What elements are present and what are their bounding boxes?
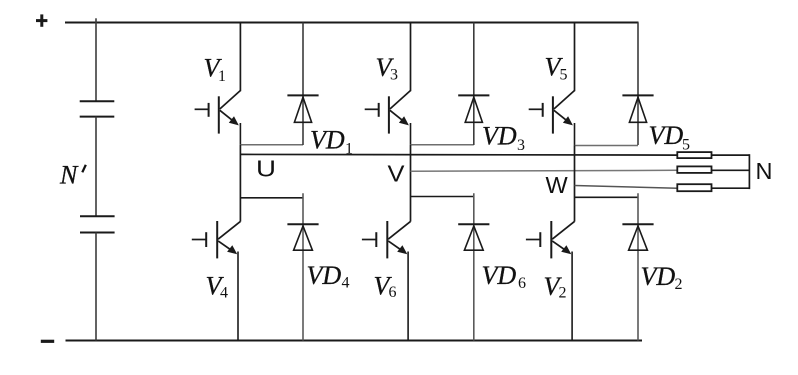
- wire: bus to V1 collector: [239, 23, 241, 92]
- svg-text:6: 6: [389, 284, 397, 301]
- wire: phase W line: [575, 186, 678, 189]
- transistor V2: [526, 221, 575, 258]
- transistor V1: [195, 91, 241, 134]
- resistor R-V (phase V load): [677, 166, 711, 173]
- diode VD1: [287, 23, 318, 146]
- svg-text:5: 5: [560, 67, 568, 84]
- wire: V1 emitter to phase node: [239, 123, 241, 145]
- wire: R-V to node N: [712, 169, 750, 171]
- wire: leg3 bottom junction to VD2: [575, 196, 639, 198]
- wire: leg1 bottom junction to VD4: [240, 197, 303, 199]
- wire: positive DC bus (top rail): [65, 22, 639, 24]
- svg-text:4: 4: [220, 285, 228, 302]
- svg-text:5: 5: [682, 136, 690, 153]
- wire: phase U line: [240, 153, 677, 156]
- transistor V6: [362, 221, 411, 258]
- wire: C2 to negative bus: [95, 233, 97, 341]
- wire: V6 emitter to negative bus: [407, 252, 409, 341]
- capacitor C2 (lower DC-link): [80, 216, 115, 232]
- svg-text:W: W: [546, 172, 569, 198]
- svg-text:VD: VD: [310, 125, 345, 154]
- transistor V4: [192, 221, 241, 258]
- - terminal: [41, 340, 54, 343]
- svg-text:3: 3: [390, 67, 398, 84]
- svg-text:VD: VD: [641, 262, 676, 291]
- transistor V5: [529, 91, 575, 134]
- wire: phase V line: [411, 169, 678, 172]
- wire: leg2 midpoint vertical: [410, 145, 412, 222]
- capacitor C1 (upper DC-link): [80, 101, 115, 116]
- wire: V4 emitter to negative bus: [237, 252, 239, 341]
- resistor R-U (phase U load): [677, 152, 711, 158]
- svg-text:U: U: [256, 155, 276, 181]
- wire: bus to V5 collector: [574, 23, 576, 92]
- wire: bus to capacitor C1: [95, 18, 97, 101]
- wire: leg1 midpoint vertical: [239, 145, 241, 222]
- wire: leg3 midpoint vertical: [574, 146, 576, 222]
- transistor V3: [365, 91, 411, 134]
- wire: emitter-diode junction (leg1 top): [240, 144, 303, 146]
- diode VD4: [287, 193, 318, 340]
- wire: leg2 bottom junction to VD6: [411, 196, 474, 198]
- svg-text:VD: VD: [482, 122, 517, 151]
- wire: negative DC bus (bottom rail): [66, 340, 643, 342]
- svg-text:VD: VD: [649, 121, 684, 150]
- svg-text:4: 4: [342, 274, 350, 291]
- label N': [59, 161, 86, 190]
- wire: V5 emitter to phase node: [574, 123, 576, 146]
- + terminal: [36, 14, 47, 26]
- resistor R-W (phase W load): [677, 184, 711, 191]
- wire: R-U to node N: [712, 154, 750, 156]
- svg-text:1: 1: [218, 68, 226, 85]
- wire: emitter-diode junction (leg3 top): [575, 145, 639, 147]
- svg-text:2: 2: [675, 276, 683, 293]
- diode VD3: [458, 23, 489, 146]
- wire: V3 emitter to phase node: [410, 123, 412, 145]
- svg-text:VD: VD: [482, 261, 517, 290]
- svg-text:6: 6: [518, 275, 526, 292]
- wire: neutral bus (node N): [748, 154, 750, 189]
- diode VD2: [622, 193, 653, 340]
- svg-text:2: 2: [559, 285, 567, 302]
- svg-text:N: N: [59, 161, 79, 190]
- svg-text:N: N: [756, 158, 773, 184]
- svg-text:VD: VD: [307, 261, 342, 290]
- wire: bus to V3 collector: [410, 23, 412, 92]
- wire: R-W to node N: [712, 187, 750, 189]
- diode VD6: [458, 193, 489, 340]
- svg-text:V: V: [388, 161, 405, 187]
- wire: emitter-diode junction (leg2 top): [411, 144, 474, 146]
- wire: V2 emitter to negative bus: [571, 252, 573, 341]
- diode VD5: [622, 23, 653, 146]
- wire: C1 to C2 (node N'): [95, 117, 97, 217]
- svg-text:3: 3: [517, 137, 525, 154]
